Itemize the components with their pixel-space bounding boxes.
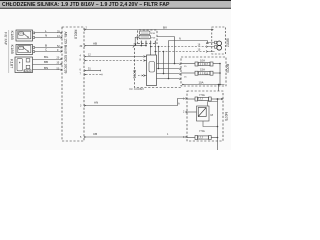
vertical bus in pump box	[217, 99, 219, 137]
svg-text:BB: BB	[44, 60, 48, 64]
wire K187 pin to M010 (BG)	[33, 59, 61, 61]
wire K185 pin to M010 (N)	[35, 37, 61, 39]
bracket line Filtr FAP	[8, 30, 10, 73]
svg-text:AN: AN	[94, 101, 98, 105]
svg-text:N: N	[179, 37, 181, 41]
relay K189	[10, 45, 35, 55]
wire K187 pin to M010 (BB)	[33, 64, 61, 66]
fuse F19 15A	[181, 68, 220, 76]
wire K189 pin to M010 (C)	[35, 51, 61, 53]
svg-text:15A: 15A	[200, 68, 205, 72]
relay K185	[10, 30, 35, 41]
svg-text:B003: B003	[226, 64, 230, 73]
relay K187	[9, 57, 32, 73]
svg-text:K185: K185	[10, 31, 15, 41]
vertical wires below B001 fuses	[141, 43, 155, 55]
ground wire below pump box	[217, 138, 219, 151]
B002 pins	[206, 29, 215, 53]
wire T-box to fuse box row4	[157, 78, 180, 80]
svg-text:Dz. 1040B/2: Dz. 1040B/2	[130, 87, 145, 91]
svg-text:BG: BG	[44, 55, 49, 59]
M010 right pins lower pair	[80, 69, 103, 76]
svg-text:10A: 10A	[199, 80, 204, 84]
title bar	[0, 0, 231, 9]
svg-text:K187: K187	[9, 59, 14, 69]
B002 connector circles	[215, 41, 222, 50]
svg-text:BN: BN	[44, 66, 48, 70]
junction node x158	[158, 47, 160, 69]
svg-text:F17: F17	[204, 63, 209, 66]
svg-text:A: A	[178, 102, 180, 106]
svg-text:B001: B001	[133, 70, 137, 79]
wire K189 pin to M010 (B)	[35, 47, 61, 49]
connector B002 dashed box	[212, 27, 230, 54]
junction vertical x168	[168, 41, 170, 79]
svg-text:10A: 10A	[200, 59, 205, 63]
fuse F10 in B001	[140, 31, 156, 35]
M010 right pins to T-box (upper pair)	[80, 54, 144, 71]
motor M pump	[187, 102, 218, 127]
fuse F17 10A	[181, 59, 220, 67]
svg-text:Alfa 159 Bosch EDC 16C39: Alfa 159 Bosch EDC 16C39	[64, 32, 68, 74]
node at pump bus top	[217, 98, 219, 100]
wire K187 pin to M010 (BN)	[33, 69, 61, 71]
B001 bottom pins	[141, 41, 155, 44]
link fusebox to pump box	[218, 85, 220, 92]
M010 right pin AN wire	[80, 99, 186, 108]
dashed wire to B002 pin 16	[151, 46, 206, 48]
svg-text:Filtr FAP: Filtr FAP	[4, 32, 8, 46]
wire T-box to fuse box row2	[157, 68, 180, 70]
M010 right pin CB wire	[80, 132, 186, 139]
svg-text:B002: B002	[226, 39, 230, 48]
junction vertical x174	[157, 37, 175, 64]
M010 right pin 30 / wire AB	[80, 41, 147, 48]
svg-text:7.5A: 7.5A	[199, 129, 205, 133]
svg-text:CB: CB	[93, 132, 97, 136]
junction nodes on AB wire	[141, 45, 143, 47]
svg-text:M010: M010	[74, 30, 78, 40]
fuse box B003 dashed	[181, 57, 230, 86]
fuse F22 7.5A top	[187, 93, 223, 101]
svg-text:AB: AB	[93, 41, 97, 45]
svg-text:CHŁODZENIE SILNIKA: 1.9 JTD 8/: CHŁODZENIE SILNIKA: 1.9 JTD 8/16V – 1.9 …	[2, 2, 170, 8]
fuse F21 7.5A bottom	[187, 129, 218, 139]
svg-text:N: N	[45, 34, 47, 38]
fuse F23 in B001	[139, 35, 156, 39]
B001 dashed box	[133, 30, 181, 88]
vertical bus in fuse box	[219, 64, 221, 85]
riser from splice to B001 left pin	[135, 37, 136, 45]
splice node on AB wire	[133, 44, 136, 48]
wire jog to B002 pin	[169, 41, 208, 42]
pin right of pump box	[221, 98, 223, 100]
pump box dashed (N075)	[187, 91, 228, 141]
ECU M010 dashed box	[62, 27, 84, 141]
M010 right pin 2 / wire BV to B002	[84, 25, 212, 30]
junction vertical x163	[163, 52, 165, 74]
svg-text:K189: K189	[10, 45, 15, 55]
svg-text:F19: F19	[204, 72, 209, 75]
T-box (relay in B001)	[138, 55, 157, 86]
wire T-box to fuse box row3	[157, 73, 180, 75]
svg-text:7.5A: 7.5A	[199, 93, 205, 97]
dashed wire to B002 pin 10	[155, 51, 206, 53]
M010 left pins	[57, 31, 63, 71]
svg-text:BV: BV	[163, 25, 167, 29]
wire K185 pin to M010 (L)	[35, 32, 61, 34]
wire T-box to fuse box row1	[157, 63, 180, 65]
svg-text:N075: N075	[224, 112, 228, 121]
pump box left pins	[183, 98, 187, 140]
